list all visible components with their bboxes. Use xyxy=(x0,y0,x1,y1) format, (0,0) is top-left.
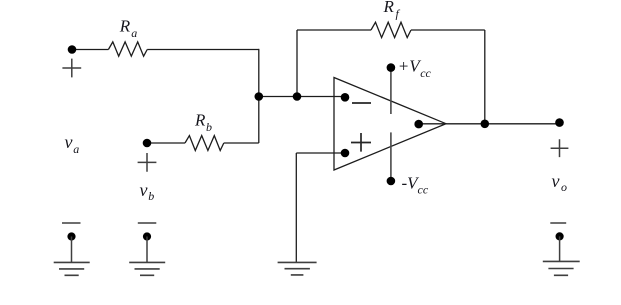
svg-text:b: b xyxy=(206,120,212,134)
node: op-amp output dot xyxy=(414,120,423,129)
svg-text:v: v xyxy=(65,132,73,152)
wire: feedback vertical up from node xyxy=(296,30,298,97)
node: +Vcc terminal dot xyxy=(387,63,396,72)
wire: va source to Ra xyxy=(72,49,108,51)
wire: Rf to right corner xyxy=(411,29,485,31)
svg-text:a: a xyxy=(73,142,79,156)
wire: Rb to vertical branch xyxy=(224,142,259,144)
terminal dot above vb ground xyxy=(143,232,151,240)
wire: Ra to corner xyxy=(147,49,259,51)
minus bar above vo ground xyxy=(550,222,566,224)
node: va source terminal xyxy=(68,45,77,54)
svg-text:+V: +V xyxy=(398,57,422,76)
node: vb source terminal xyxy=(143,139,152,148)
wire: non-inverting input horizontal xyxy=(296,152,345,154)
svg-text:a: a xyxy=(131,26,137,40)
svg-text:cc: cc xyxy=(420,66,431,80)
wire: vertical Ra branch down to Rb wire xyxy=(258,49,260,143)
ground under va xyxy=(54,262,90,275)
svg-text:f: f xyxy=(396,7,401,21)
ground under vo xyxy=(543,261,580,275)
wire: vb ground stub xyxy=(146,237,148,263)
+Vcc pin stub xyxy=(390,68,392,114)
svg-text:R: R xyxy=(383,0,395,16)
svg-text:v: v xyxy=(140,180,148,200)
resistor Ra xyxy=(108,42,147,56)
wire: summing node to inverting input xyxy=(259,96,345,98)
plus mark at vo terminal xyxy=(551,139,569,157)
svg-text:o: o xyxy=(561,180,567,194)
node: -Vcc terminal dot xyxy=(387,177,396,186)
svg-text:cc: cc xyxy=(418,183,429,197)
node: inverting input dot xyxy=(341,93,350,102)
node: non-inverting input dot xyxy=(341,149,350,158)
node: summing junction xyxy=(254,92,263,101)
wire: vo ground stub xyxy=(559,236,561,261)
resistor Rb xyxy=(185,136,224,151)
node: vo terminal dot xyxy=(555,118,564,127)
terminal dot above va ground xyxy=(67,232,75,240)
wire: feedback top left to Rf xyxy=(297,29,371,31)
plus mark at vb source xyxy=(138,153,157,172)
svg-text:v: v xyxy=(552,171,560,191)
wire: output from internal node through apex to terminal xyxy=(419,123,560,125)
wire: feedback vertical down to output xyxy=(484,30,486,124)
minus bar above va ground xyxy=(62,222,81,224)
op-amp U1 triangle xyxy=(334,78,446,171)
terminal dot above vo ground xyxy=(556,232,564,240)
svg-text:b: b xyxy=(148,189,154,203)
op-amp plus sign xyxy=(351,133,371,152)
wire: va ground stub xyxy=(71,237,73,263)
-Vcc pin stub xyxy=(390,132,392,181)
svg-text:R: R xyxy=(119,16,131,35)
node: feedback/output junction xyxy=(481,120,490,129)
svg-text:R: R xyxy=(194,110,206,129)
plus mark at va source xyxy=(62,59,81,78)
node: feedback tap junction xyxy=(293,92,302,101)
ground under vb xyxy=(129,262,165,275)
ground at non-inverting input xyxy=(278,262,317,275)
minus bar above vb ground xyxy=(138,222,157,224)
wire: vb source to Rb xyxy=(147,142,185,144)
wire: non-inverting input down to ground xyxy=(295,153,297,262)
op-amp minus sign xyxy=(352,102,371,104)
resistor Rf xyxy=(371,22,411,37)
